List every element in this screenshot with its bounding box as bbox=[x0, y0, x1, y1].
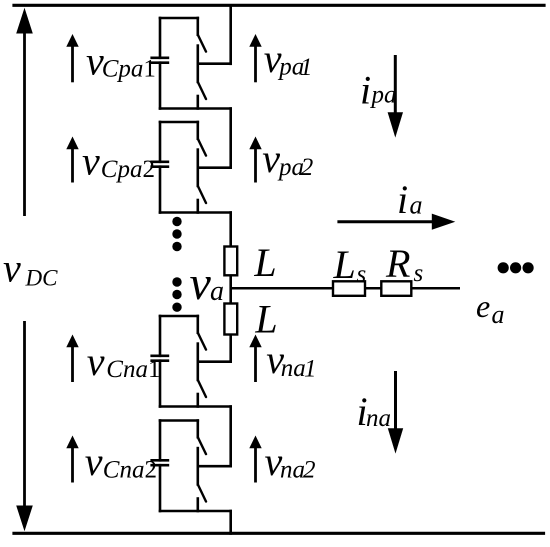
svg-text:v: v bbox=[3, 245, 21, 290]
svg-text:Cpa1: Cpa1 bbox=[102, 56, 156, 83]
svg-text:Cpa2: Cpa2 bbox=[101, 156, 155, 183]
svg-text:a: a bbox=[492, 300, 505, 329]
svg-text:na: na bbox=[280, 456, 305, 483]
svg-text:2: 2 bbox=[301, 154, 314, 181]
svg-text:DC: DC bbox=[25, 265, 59, 290]
svg-text:a: a bbox=[410, 191, 423, 220]
svg-text:2: 2 bbox=[303, 457, 316, 484]
svg-text:v: v bbox=[262, 136, 280, 181]
svg-text:v: v bbox=[85, 439, 103, 484]
svg-text:L: L bbox=[254, 297, 277, 342]
svg-text:Cna1: Cna1 bbox=[106, 356, 160, 383]
svg-text:a: a bbox=[210, 276, 224, 307]
svg-text:L: L bbox=[253, 240, 276, 285]
svg-text:v: v bbox=[190, 257, 212, 310]
svg-text:pa: pa bbox=[370, 82, 397, 109]
svg-text:i: i bbox=[360, 68, 371, 113]
svg-text:1: 1 bbox=[300, 54, 313, 81]
svg-text:i: i bbox=[397, 177, 408, 222]
svg-text:s: s bbox=[414, 260, 424, 287]
svg-text:L: L bbox=[333, 242, 356, 287]
svg-text:Cna2: Cna2 bbox=[103, 456, 157, 483]
svg-text:R: R bbox=[385, 241, 410, 286]
svg-text:s: s bbox=[357, 261, 367, 288]
svg-text:na: na bbox=[366, 405, 391, 432]
svg-text:v: v bbox=[82, 138, 100, 183]
svg-text:na: na bbox=[281, 355, 306, 382]
svg-text:1: 1 bbox=[304, 356, 317, 383]
svg-text:e: e bbox=[476, 288, 490, 324]
svg-text:v: v bbox=[87, 339, 105, 384]
